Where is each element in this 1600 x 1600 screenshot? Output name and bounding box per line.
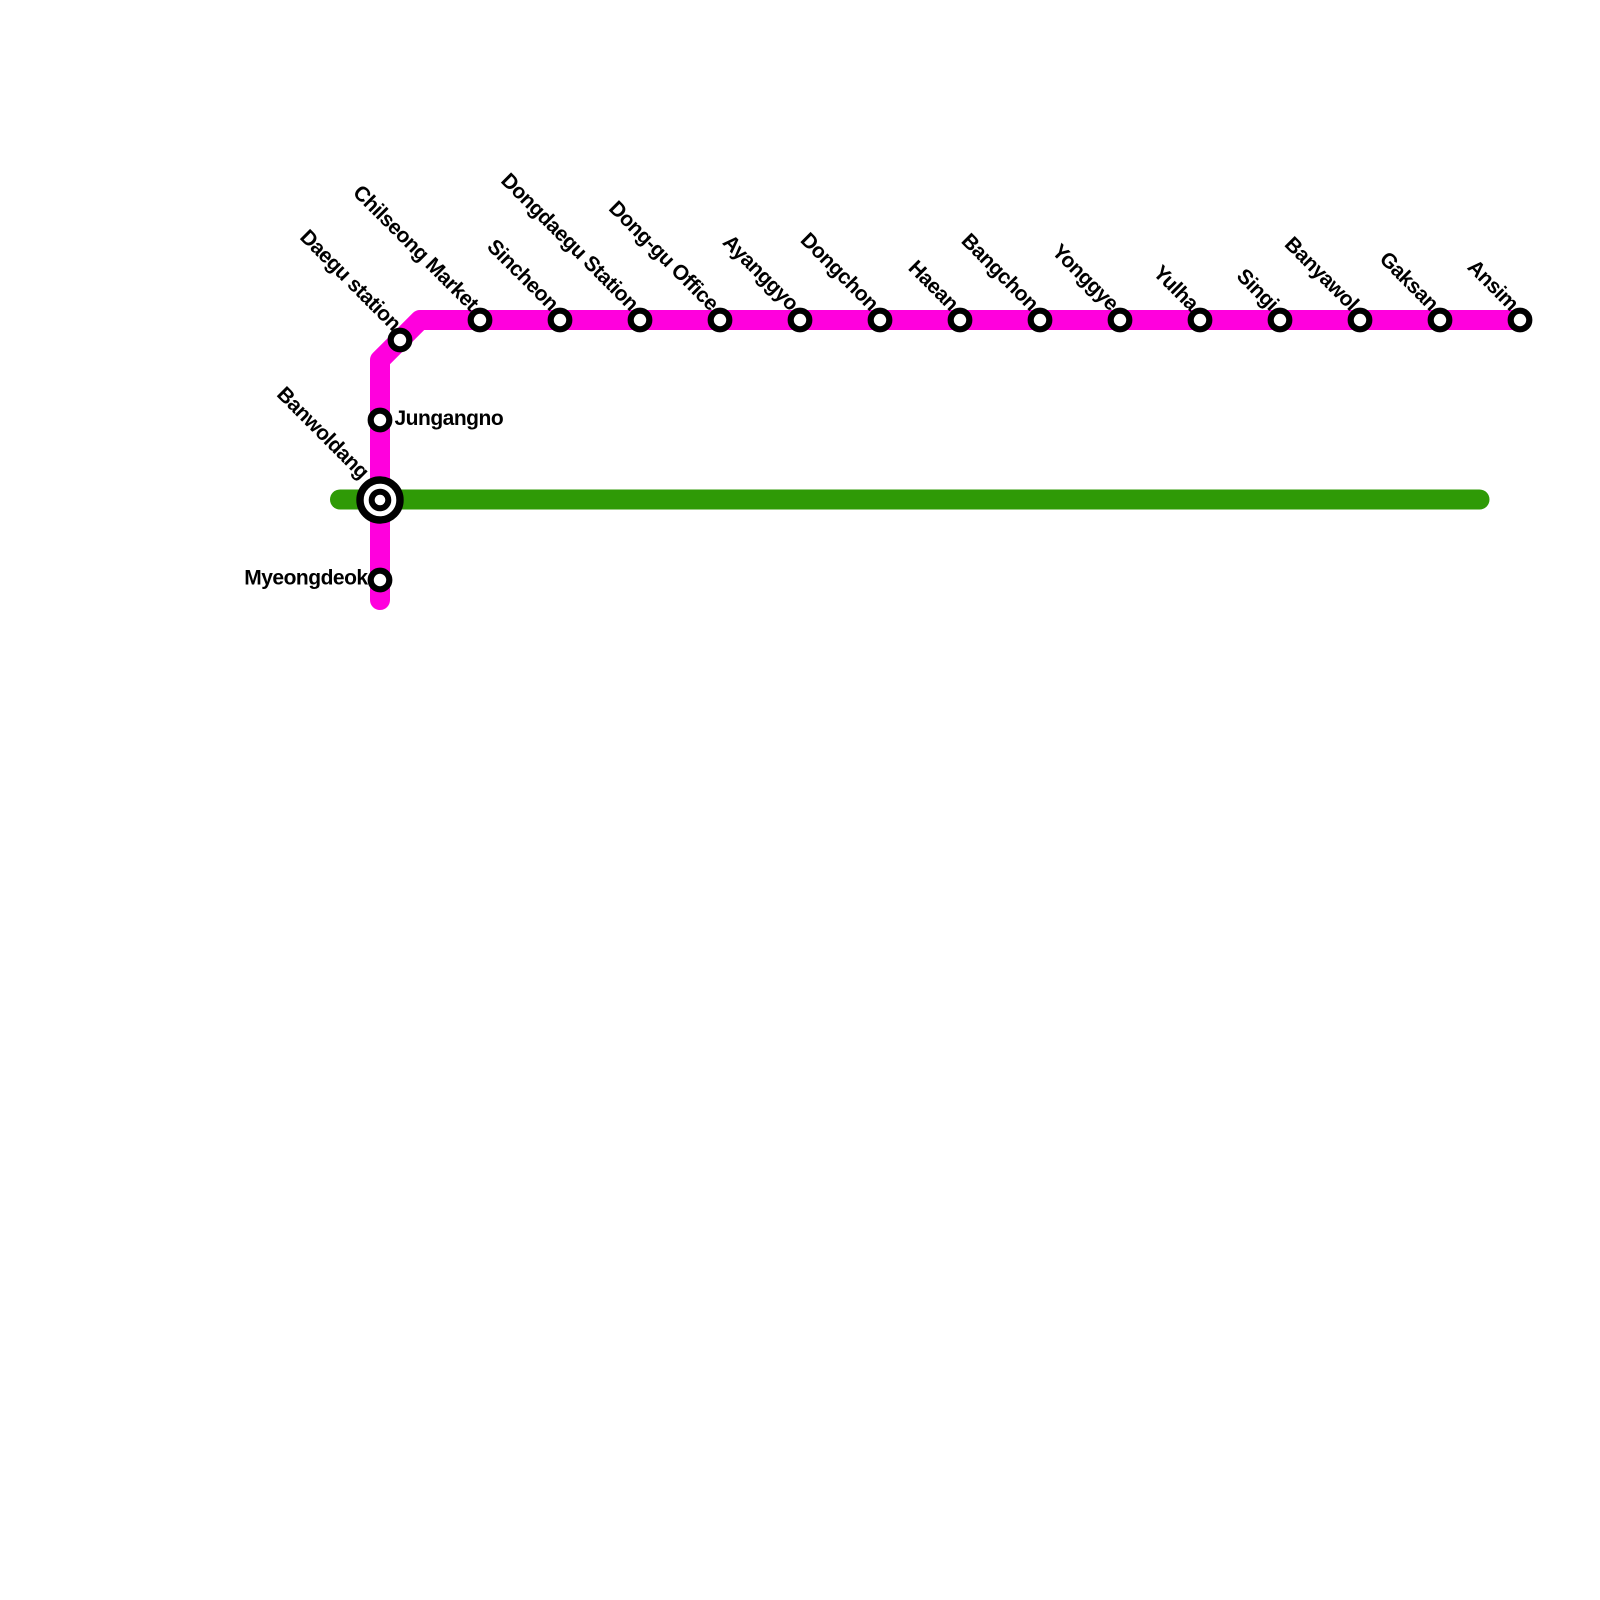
station Ansim <box>1511 311 1530 330</box>
station Sincheon <box>551 311 570 330</box>
station Singi <box>1271 311 1290 330</box>
station Jungangno <box>371 411 390 430</box>
station Dongchon <box>871 311 890 330</box>
station Dongdaegu Station <box>631 311 650 330</box>
station Bangchon <box>1031 311 1050 330</box>
station Gaksan <box>1431 311 1450 330</box>
svg-text:Jungangno: Jungangno <box>395 407 504 430</box>
station Banyawol <box>1351 311 1370 330</box>
station Yulha <box>1191 311 1210 330</box>
line 2 (green) <box>340 490 1480 510</box>
station Daegu station <box>391 331 410 350</box>
station Chilseong Market <box>471 311 490 330</box>
station Haean <box>951 311 970 330</box>
interchange station Banwoldang (outer ring) <box>360 480 400 520</box>
line 1 (magenta) <box>380 320 1520 600</box>
station Yonggye <box>1111 311 1130 330</box>
station Ayanggyo <box>791 311 810 330</box>
station Dong-gu Office <box>711 311 730 330</box>
svg-text:Myeongdeok: Myeongdeok <box>244 567 368 590</box>
interchange station Banwoldang (inner ring) <box>372 492 389 509</box>
station Myeongdeok <box>371 571 390 590</box>
